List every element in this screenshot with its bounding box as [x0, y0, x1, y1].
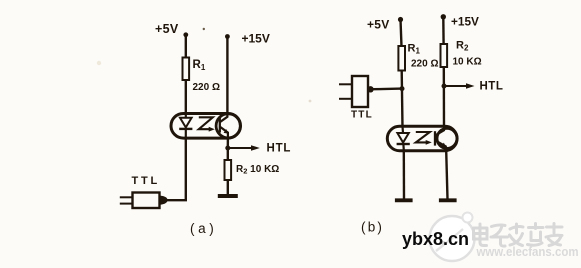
light arrowhead (b): [426, 140, 432, 145]
svg-text:ybx8.cn: ybx8.cn: [402, 229, 469, 249]
terminal dot +15V (a): [225, 34, 230, 39]
light arrows (a): [199, 117, 213, 129]
resistor R1 (a) body: [183, 58, 190, 81]
junction node HTL (b): [442, 84, 447, 89]
light arrowhead (a): [209, 127, 215, 132]
watermark circle logo: [430, 213, 475, 262]
wire junction to R2 (a): [227, 148, 229, 161]
phototransistor circle (b): [437, 128, 457, 148]
svg-text:220 Ω: 220 Ω: [193, 82, 220, 93]
terminal dot +5V (b): [398, 17, 403, 22]
svg-text:TTL: TTL: [351, 110, 373, 121]
TTL input wire 1 (b): [339, 83, 352, 85]
TTL gate (b) inverter bubble: [367, 86, 373, 92]
wire R1 to optocoupler (b): [401, 71, 404, 128]
wire collector-output (a): [227, 138, 229, 148]
TTL gate (b) body: [352, 76, 368, 107]
svg-text:HTL: HTL: [267, 143, 292, 155]
wire R2 to ground (a): [227, 180, 229, 195]
resistor R2 (b) body: [441, 44, 448, 67]
TTL input wire 2 (a): [120, 203, 133, 205]
wire HTL output (a): [228, 147, 252, 149]
scan speck 3: [309, 100, 312, 103]
svg-text:10 KΩ: 10 KΩ: [453, 57, 482, 68]
phototransistor circle (a): [216, 114, 240, 138]
terminal dot +5V (a): [183, 32, 188, 37]
wire LED to ground (b): [403, 151, 406, 199]
svg-text:+15V: +15V: [242, 32, 270, 46]
LED diode (b): [397, 126, 410, 150]
ground emitter side (b): [439, 198, 457, 202]
wire HTL output (b): [444, 85, 467, 87]
wire +5V to R1 (b): [401, 20, 402, 47]
resistor R1 (b) body: [398, 46, 405, 71]
phototransistor Q (a): [220, 114, 228, 139]
svg-text:+15V: +15V: [451, 15, 479, 29]
resistor R2 (a) body: [225, 160, 232, 180]
junction node TTL (b): [400, 86, 405, 91]
wire +15V to optocoupler (a): [226, 37, 228, 116]
terminal dot +15V (b): [441, 14, 446, 19]
emitter arrowhead (a): [224, 129, 229, 134]
svg-text:R2 10 KΩ: R2 10 KΩ: [236, 164, 279, 176]
ground (a): [218, 194, 238, 198]
wire R1 to optocoupler (a): [185, 80, 187, 115]
svg-text:(b): (b): [361, 220, 384, 235]
wire TTL output to LED cathode (a): [166, 138, 186, 200]
junction node (a): [225, 146, 230, 151]
light arrows (b): [416, 132, 430, 142]
TTL input wire 1 (a): [120, 196, 133, 198]
emitter arrowhead (b): [441, 143, 446, 148]
wire R2 to optocoupler (b): [443, 67, 446, 128]
scan speck 1: [203, 28, 205, 30]
svg-text:HTL: HTL: [480, 81, 504, 93]
TTL gate (a) body: [133, 193, 160, 209]
wire emitter to ground (b): [446, 151, 447, 199]
wire +15V to R2 (b): [442, 17, 445, 45]
svg-text:+5V: +5V: [367, 18, 390, 32]
svg-text:TTL: TTL: [132, 175, 161, 187]
optocoupler U1 envelope (a): [171, 114, 241, 139]
scan speck 2: [97, 61, 101, 65]
svg-text:+5V: +5V: [155, 22, 179, 36]
wire +5V to R1 (a): [185, 35, 187, 58]
HTL arrowhead (b): [466, 83, 475, 88]
svg-text:(a): (a): [190, 221, 217, 236]
phototransistor Q (b): [435, 126, 446, 150]
svg-text:220 Ω: 220 Ω: [411, 59, 438, 70]
wire TTL output to node (b): [374, 87, 403, 90]
HTL arrowhead (a): [251, 145, 260, 151]
watermark text 电子发烧友 (brush strokes approximation): [474, 224, 563, 247]
svg-text:www.elecfans.com: www.elecfans.com: [476, 244, 579, 259]
TTL gate (a) inverter bubble: [160, 196, 167, 205]
TTL input wire 2 (b): [339, 98, 352, 100]
optocoupler U2 envelope (b): [387, 126, 457, 150]
ground LED side (b): [395, 198, 413, 202]
LED diode (a): [179, 114, 192, 139]
